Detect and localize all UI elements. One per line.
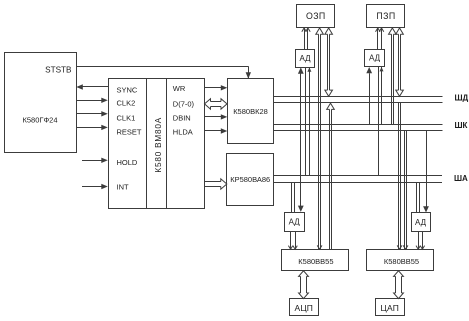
parallel interface K580VV55 left (282, 250, 349, 271)
clock generator K580GF24 (5, 53, 77, 153)
bidirectional arrow VV55 right to CAP (394, 271, 404, 277)
wire SYNC (82, 86, 108, 88)
wire RESET (76, 127, 102, 129)
wire CLK1 (76, 113, 102, 115)
wire HLDA to VK28 (204, 130, 222, 132)
address bus arrow CPU to VA86 (221, 179, 227, 189)
svg-text:D(7-0): D(7-0) (173, 99, 195, 108)
address pair ShA to lower AD right (416, 182, 418, 212)
data pair ShD to VV55 right (398, 103, 400, 249)
svg-text:WR: WR (173, 84, 186, 93)
wire CLK2 (76, 100, 102, 102)
address pair AD to ShA left (305, 67, 307, 176)
wire HOLD (82, 160, 102, 162)
vee arrow at VV55 left top (317, 245, 322, 249)
svg-text:К580 ВМ80А: К580 ВМ80А (154, 117, 163, 173)
data lines PZP to ShD down arrow pair (396, 28, 404, 34)
RAM block OZP (297, 5, 335, 28)
wire WR to VK28 (204, 87, 222, 89)
svg-text:АЦП: АЦП (294, 303, 313, 313)
wire DBIN to VK28 (204, 116, 222, 118)
data lines PZP up arrow pair (389, 28, 397, 34)
pair lower AD to VV55 left (290, 231, 292, 249)
svg-text:ПЗП: ПЗП (376, 11, 395, 21)
wire STSTB from GF24 to VK28 (76, 66, 248, 68)
data lines OZP to ShD down arrow pair (325, 28, 333, 34)
svg-text:К580ВК28: К580ВК28 (233, 107, 268, 116)
select line upper AD right to ShK (369, 73, 371, 124)
svg-text:STSTB: STSTB (45, 65, 72, 74)
DAC block CAP (376, 299, 405, 316)
svg-text:HLDA: HLDA (173, 128, 193, 137)
wire INT (82, 186, 102, 188)
svg-text:КР580ВА86: КР580ВА86 (230, 175, 270, 184)
control bus ShK line upper (274, 124, 443, 126)
address pair AD to OZP (304, 28, 306, 49)
svg-text:INT: INT (117, 183, 130, 192)
svg-text:ША: ША (454, 174, 468, 183)
svg-text:АД: АД (299, 54, 311, 63)
bus transceiver KR580VA86 (227, 154, 274, 206)
svg-text:ШК: ШК (455, 121, 468, 130)
svg-text:DBIN: DBIN (173, 113, 191, 122)
data bus ShD line upper (274, 96, 443, 98)
svg-text:SYNC: SYNC (117, 86, 138, 95)
ADC block ACP (290, 299, 319, 316)
svg-text:АД: АД (289, 218, 301, 227)
svg-text:RESET: RESET (117, 128, 142, 137)
address bus ShA line upper (274, 175, 443, 177)
svg-text:ЦАП: ЦАП (381, 303, 400, 313)
svg-text:HOLD: HOLD (117, 158, 138, 167)
system controller K580VK28 (228, 79, 274, 144)
address decoder AD upper-left (296, 50, 315, 68)
svg-text:К580ВВ55: К580ВВ55 (384, 257, 419, 266)
data bus D(7-0) bidirectional arrow (205, 99, 211, 109)
select line ShK to lower AD right (426, 130, 428, 206)
svg-text:ОЗП: ОЗП (306, 11, 326, 21)
svg-text:К580ВВ55: К580ВВ55 (298, 257, 333, 266)
svg-text:CLK2: CLK2 (117, 99, 136, 108)
parallel interface K580VV55 right (367, 250, 434, 271)
address decoder AD lower-right (412, 213, 431, 232)
address pair AD to PZP (377, 28, 379, 49)
svg-text:АД: АД (415, 218, 427, 227)
svg-text:ШД: ШД (455, 93, 469, 102)
svg-text:К580ГФ24: К580ГФ24 (23, 116, 58, 125)
CPU K580VM80A (109, 79, 205, 209)
pair ShK to VV55 right (404, 130, 406, 249)
address decoder AD lower-left (285, 213, 305, 232)
select line upper AD to lower AD left (300, 74, 302, 207)
data bus ShD line lower (274, 102, 443, 104)
control bus ShK line lower (274, 130, 443, 132)
svg-text:АД: АД (369, 54, 381, 63)
bidirectional arrow VV55 left to ACP (299, 271, 309, 277)
pair lower AD right to VV55 right (418, 232, 420, 250)
data lines OZP up arrow pair (316, 28, 324, 34)
address decoder AD upper-right (365, 50, 385, 67)
address bus ShA line lower (274, 182, 443, 184)
address pair AD to ShA right (378, 67, 380, 176)
address pair ShA to lower AD left (291, 182, 293, 212)
svg-text:CLK1: CLK1 (117, 114, 136, 123)
data lines ShD to VV55 left up arrow pair (327, 103, 335, 109)
ROM block PZP (367, 5, 405, 28)
